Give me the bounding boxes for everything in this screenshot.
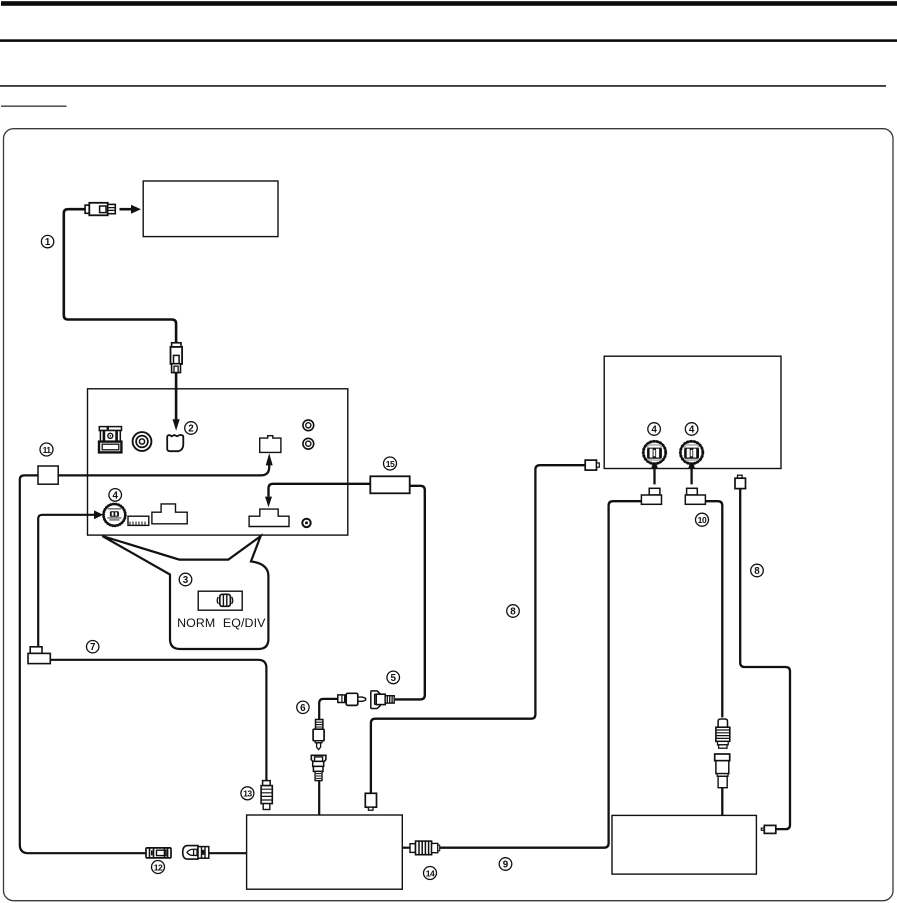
elbow plug below monitor right (10)	[685, 488, 705, 504]
plug at tuner box right (wire 8 right end)	[761, 825, 776, 833]
svg-text:11: 11	[43, 445, 52, 455]
svg-text:8: 8	[754, 566, 760, 577]
svg-text:15: 15	[386, 459, 395, 469]
box head unit rear panel	[88, 389, 348, 535]
svg-text:12: 12	[154, 862, 163, 872]
inline male connector on wire 10	[716, 719, 730, 748]
spade terminal pair 12 - male	[146, 848, 171, 858]
wire 12 : from square 11 left, down, along bottom to spade terminals	[20, 475, 146, 853]
wire 7 : arrow into DIN 4 of head unit, down to elbow plug	[38, 515, 94, 647]
short underline	[1, 106, 67, 107]
DIN connector 4 right on monitor	[680, 441, 702, 463]
raised-top connector A (head unit bottom middle)	[152, 504, 187, 524]
optical jack 2 in head unit	[167, 435, 183, 451]
vertical RCA female jack of wire 6	[311, 755, 326, 780]
box top-left (unit connected by arrow)	[143, 181, 278, 237]
label 11	[40, 443, 53, 456]
DIN connector 4 left on monitor	[643, 441, 665, 463]
svg-text:14: 14	[426, 868, 435, 878]
svg-text:8: 8	[510, 607, 516, 618]
arrow into monitor DIN 4 right	[690, 468, 692, 484]
box tuner bottom-right	[612, 815, 756, 874]
connector 1 vertical plug (above head unit)	[171, 343, 183, 373]
small plug at monitor left (wire 8 left top end)	[585, 460, 599, 470]
label 4 head unit	[109, 489, 122, 502]
label 8 right	[751, 564, 764, 577]
filter block 15	[370, 476, 409, 493]
label 6	[297, 701, 309, 714]
third rule	[0, 85, 886, 87]
second rule	[0, 39, 897, 42]
label 7	[87, 641, 99, 654]
wire 8 right : from plug below monitor down to tuner box plug	[740, 489, 790, 829]
connector 1 horizontal plug (top left)	[85, 203, 115, 216]
square connector 11	[38, 466, 58, 484]
inline female connector on wire 10	[715, 754, 730, 788]
wire 1 lower stub with arrow into optical jack 2	[175, 372, 178, 420]
small jack circle (head unit bottom right)	[302, 519, 310, 527]
box monitor	[604, 356, 781, 468]
label 5	[387, 671, 400, 684]
label 2	[185, 422, 198, 435]
svg-text:2: 2	[188, 424, 194, 435]
svg-text:NORM: NORM	[177, 616, 215, 630]
svg-text:EQ/DIV: EQ/DIV	[223, 616, 266, 630]
elbow plug below monitor left	[641, 488, 661, 504]
socket 5	[371, 691, 394, 709]
label 14	[424, 867, 437, 880]
svg-text:3: 3	[183, 575, 189, 586]
twin RCA jacks (head unit right)	[303, 420, 314, 449]
arrow into monitor DIN 4 left	[653, 468, 655, 484]
top black bar	[1, 1, 897, 6]
BOXES	[88, 181, 782, 889]
connector 13 ribbed plug	[261, 781, 272, 810]
wire 1 : cable from connector 1 down to head unit	[64, 209, 176, 343]
label 4 monitor right	[685, 423, 698, 436]
hatched connector (head unit bottom)	[128, 516, 149, 525]
label 1	[41, 235, 53, 248]
spade terminal pair 12 - female	[183, 846, 209, 860]
svg-text:10: 10	[698, 515, 707, 525]
connector with top notch (head unit, upper right)	[260, 436, 281, 453]
raised-top connector B (head unit bottom right)	[249, 509, 289, 526]
antenna jack icon in head unit	[99, 426, 122, 452]
svg-text:13: 13	[243, 789, 252, 799]
DIN socket 4 on head unit	[104, 504, 126, 526]
RCA target circle in head unit	[133, 432, 152, 451]
wire 7 horizontal : elbow plug to connector 13	[50, 660, 266, 781]
RCA male plug of wire 6 (pointing right)	[338, 693, 366, 705]
wire 8 left : from small plug up and over to monitor left side	[371, 465, 585, 793]
wire 9 : from connector 14 right, up to left elbow plug	[440, 501, 642, 848]
wire 11 : from square 11 right into head unit, arrow up into connector	[58, 465, 269, 476]
wire from spade 12 to amplifier box	[209, 852, 246, 854]
label 3	[179, 573, 192, 586]
label 12	[152, 861, 165, 874]
svg-text:1: 1	[45, 237, 51, 248]
wire 6 lower : jack to amplifier box	[318, 781, 320, 816]
svg-text:4: 4	[689, 425, 695, 436]
wire 9 stub : amplifier box to connector 14	[402, 847, 410, 849]
small plug lower end of wire 8 left	[365, 793, 376, 810]
elbow plug 7 (left)	[28, 647, 50, 664]
label 10	[696, 513, 709, 526]
label 13	[241, 787, 254, 800]
switch icon in bubble 3	[198, 591, 242, 610]
arrow from connector 1 into top box	[120, 208, 132, 211]
svg-text:4: 4	[112, 490, 118, 501]
vertical RCA male plug of wire 6	[313, 720, 324, 750]
wire 6 : RCA plug to vertical male plug	[319, 699, 338, 720]
svg-text:7: 7	[90, 642, 96, 653]
label 9	[499, 858, 512, 871]
small plug top of wire 8 right	[735, 475, 746, 488]
svg-text:4: 4	[651, 425, 657, 436]
wire 15 left : from filter 15 into head unit with down arrow	[269, 484, 371, 497]
svg-text:6: 6	[300, 703, 306, 714]
callout bubble 3 with two tails	[102, 536, 268, 649]
label 15	[384, 457, 397, 470]
wire 10 : from right elbow plug down to inline connectors and tuner box	[705, 501, 722, 717]
connector 14 ribbed plug	[410, 841, 440, 855]
wire 10 lower stub	[721, 788, 723, 816]
svg-text:9: 9	[503, 860, 509, 871]
label 4 monitor left	[648, 423, 661, 436]
svg-text:5: 5	[390, 673, 396, 684]
wire 15 : from socket 5 up to filter 15	[395, 486, 425, 700]
label 8 left	[507, 605, 520, 618]
box amplifier bottom-center	[247, 815, 403, 889]
